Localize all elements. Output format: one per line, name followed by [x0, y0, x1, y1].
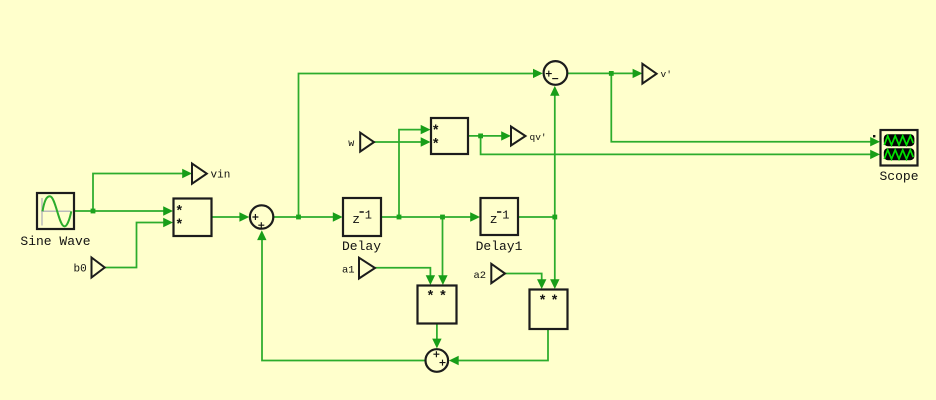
svg-text:Sine Wave: Sine Wave: [20, 234, 90, 249]
arrow into product P1 input1: [163, 206, 173, 215]
node after sum S2: [609, 71, 614, 76]
arrow into product P3 input2: [438, 275, 447, 285]
port triangle vin: [192, 164, 207, 184]
arrow into Delay1: [470, 212, 480, 221]
svg-text:*: *: [538, 293, 546, 309]
port triangle b0: [92, 258, 105, 278]
svg-text:a2: a2: [474, 270, 487, 282]
wire qv' branch down to scope input2: [481, 136, 873, 155]
wire branch up to product P2 input1: [399, 130, 423, 217]
node at delay1 output: [552, 215, 557, 220]
wire sum S1 to Delay: [274, 216, 335, 218]
svg-text:vin: vin: [211, 170, 231, 182]
wire sum S2 to v' port: [567, 72, 635, 74]
wire a2 to product P4 input1: [505, 274, 542, 283]
port triangle a1: [359, 258, 375, 279]
wire node up to sum S2 bottom input: [554, 93, 556, 217]
arrow into product P4 input2: [550, 279, 559, 289]
port triangle w: [360, 133, 374, 152]
wire branch down to product P3 input2: [442, 217, 444, 278]
node at product P2 output: [478, 134, 483, 139]
wire sum S3 output feedback to sum S1 bottom: [262, 237, 425, 361]
arrow into product P2 input1: [421, 125, 431, 134]
arrow into sum S1 bottom: [257, 230, 266, 240]
arrow into scope input2: [870, 150, 880, 159]
arrow into sum S2 bottom: [550, 86, 559, 96]
sum S2: [544, 61, 568, 85]
wire product P4 output to sum S3 right: [456, 329, 548, 361]
node at delay output 1: [397, 215, 402, 220]
arrow into product P3 input1: [426, 275, 435, 285]
svg-text:a1: a1: [342, 265, 355, 277]
arrow into product P2 input2: [421, 137, 431, 146]
wire product P3 output to sum S3 top: [436, 324, 438, 341]
node after sum S1: [296, 215, 301, 220]
delay1 block: [481, 198, 519, 235]
delay block: [343, 198, 381, 236]
wire product P2 to qv' port: [469, 135, 504, 137]
svg-text:Delay: Delay: [342, 239, 381, 254]
sine wave source block: [37, 193, 74, 229]
wire node branch up to sum S2 left input: [299, 74, 536, 218]
port triangle v': [642, 64, 656, 84]
node at delay output 2: [440, 215, 445, 220]
arrow into v' port: [633, 69, 643, 78]
svg-text:1: 1: [502, 209, 509, 223]
svg-text:Delay1: Delay1: [476, 239, 523, 254]
svg-text:z: z: [490, 212, 498, 227]
svg-text:*: *: [426, 289, 434, 305]
arrow into sum S3 right: [449, 356, 459, 365]
svg-text:z: z: [352, 212, 360, 227]
arrow into sum S3 top: [432, 339, 441, 349]
product P3 block: [418, 286, 457, 324]
wire product P1 to sum S1: [212, 216, 242, 218]
arrow into scope input1: [870, 137, 880, 146]
arrow into product P4 input1: [537, 279, 546, 289]
arrow into vin port: [182, 169, 192, 178]
svg-text:qv': qv': [530, 132, 547, 143]
svg-text:v': v': [661, 69, 672, 80]
junction dots: [91, 71, 614, 219]
arrow into sum S2 left: [533, 69, 543, 78]
svg-text:1: 1: [365, 209, 372, 223]
port triangle qv': [511, 127, 526, 146]
product P1 block: [174, 199, 212, 237]
sum S1: [250, 205, 273, 228]
svg-text:w: w: [348, 139, 354, 150]
svg-text:*: *: [439, 289, 447, 305]
svg-text:b0: b0: [74, 264, 87, 276]
arrow into product P1 input2: [163, 218, 173, 227]
wire b0 to product P1 input2: [105, 223, 167, 268]
wire node down to product P4 input2: [554, 217, 556, 282]
wire Delay to Delay1: [381, 216, 472, 218]
wire branch down to scope input1: [611, 73, 873, 141]
arrow into qv' port: [501, 131, 511, 140]
svg-text:*: *: [431, 137, 439, 153]
scope block: [873, 130, 918, 166]
svg-text:*: *: [175, 217, 183, 233]
svg-text:Scope: Scope: [879, 169, 918, 184]
arrow into sum S1 left: [239, 212, 249, 221]
wire sine output to product P1 input1: [75, 210, 166, 212]
wire Delay1 output to node: [518, 216, 555, 218]
node after sine wave: [91, 209, 96, 214]
port triangle a2: [491, 264, 505, 283]
arrowheads: [163, 69, 880, 366]
arrow into Delay: [333, 212, 343, 221]
wire branch to vin port: [93, 174, 184, 212]
product P4 block: [530, 290, 568, 330]
product P2 block: [431, 118, 468, 154]
wire w to product P2 input2: [374, 141, 422, 143]
svg-text:*: *: [550, 293, 558, 309]
wire a1 to product P3 input1: [375, 268, 430, 278]
sum S3: [426, 349, 449, 372]
